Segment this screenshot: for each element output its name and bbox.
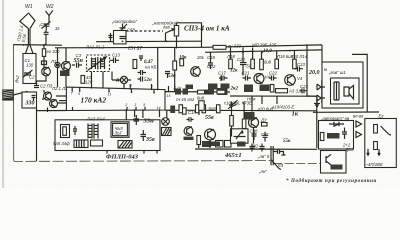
blob K31E: [237, 142, 246, 147]
module pins top: [130, 84, 168, 92]
capacitor C1B: [141, 130, 147, 141]
capacitor C6: [120, 37, 126, 39]
capacitor C13: [110, 58, 119, 64]
jack symbols: [356, 121, 362, 138]
transistor V5pre: [184, 127, 193, 136]
scan streak: [2, 0, 4, 188]
capacitor C1 trimmer: [42, 22, 51, 31]
wire V2 emitter to C2: [37, 76, 47, 84]
mixer A1: [120, 76, 127, 83]
rail H8: [37, 110, 67, 112]
resistor R1: [42, 49, 45, 57]
capacitor C17: [219, 76, 228, 81]
blob 3ch3: [208, 84, 218, 90]
bottomright right box: [365, 119, 397, 168]
resistor near A2: [183, 108, 187, 114]
capacitor C22: [269, 76, 277, 81]
junction dots rails: [23, 41, 308, 112]
resistor R16: [260, 59, 264, 69]
blob small box: [331, 165, 343, 170]
transistor V7: [249, 118, 259, 128]
filter lined box: [74, 140, 88, 148]
filter transformer: [88, 124, 98, 139]
pot wiper arrow: [166, 29, 175, 33]
capacitor C12 vert: [165, 72, 170, 79]
rail H3: [96, 40, 202, 43]
tuning slug arrow: [88, 57, 107, 71]
ferrite rod box: [3, 90, 13, 100]
wire wiper down: [165, 33, 167, 41]
AF bottom row blob: [202, 141, 211, 147]
paper texture: [0, 0, 1, 1]
resistor R5 leads: [174, 48, 176, 92]
bottomright left box: [319, 121, 354, 150]
hatched box A2: [162, 128, 172, 136]
coupling trimmer: [228, 100, 238, 109]
resistor horiz b1: [198, 90, 205, 94]
resistor AF v1: [230, 116, 234, 127]
AF small box: [199, 101, 205, 111]
blobs above module right: [175, 89, 181, 95]
rail H1: [13, 44, 62, 47]
cap to ground right: [273, 149, 285, 155]
resistor R14: [293, 59, 297, 68]
pin digits: [71, 84, 171, 110]
resistor br1: [320, 133, 324, 141]
oscillator box: [114, 31, 127, 44]
wire x36.5: [36, 108, 38, 161]
blob R13: [244, 85, 253, 93]
cap C29: [250, 144, 255, 152]
pot SP3-4 leads: [176, 23, 178, 48]
resistor R6 horizontal: [213, 45, 226, 49]
pot box: [231, 129, 249, 143]
small box transistor: [326, 155, 331, 166]
diode small box: [42, 60, 47, 66]
capacitor C2a bottom: [34, 84, 39, 88]
gang link dashes: [126, 30, 163, 32]
blob3: [205, 90, 214, 95]
capacitor C27a: [300, 88, 308, 93]
wire x317: [316, 96, 318, 148]
module internal top pins: [72, 87, 154, 92]
wire out right: [352, 54, 367, 112]
AF bottom row box2: [225, 141, 232, 148]
trimmer in coil box: [23, 70, 33, 78]
transistor V5: [285, 75, 296, 86]
bottom boundary line right: [273, 162, 320, 164]
transistor V4: [254, 74, 264, 84]
antenna W1 stem wires: [26, 29, 34, 54]
IF transformer dashed box: [87, 55, 110, 72]
filter cap: [73, 126, 77, 135]
resistor row v1: [179, 105, 183, 113]
filter inner resistor box: [61, 125, 70, 138]
transformer bars: [334, 82, 339, 100]
output box outer: [322, 62, 363, 108]
rail H2: [55, 45, 322, 48]
resistor R1 leads: [43, 45, 45, 60]
resistor row v3: [202, 105, 206, 113]
wire node column: [58, 48, 67, 87]
filter cluster resistor: [133, 60, 137, 69]
blob 4H7: [221, 84, 230, 89]
osc transistor Q2: [50, 100, 58, 108]
resistor rr2: [374, 142, 378, 150]
blob 10H15V: [327, 133, 340, 139]
misc short wires top: [211, 48, 295, 82]
left AF resistor: [197, 136, 201, 145]
capacitor 1H: [134, 115, 140, 125]
capacitor C18: [208, 60, 213, 70]
wire diode to V2: [44, 65, 46, 68]
resistor AF v2: [242, 119, 246, 129]
capacitor C21: [243, 76, 252, 81]
wire pot top corner: [177, 23, 202, 48]
wire mid vertical: [157, 48, 159, 90]
resistor R17 vertical: [270, 85, 274, 93]
wire x307: [306, 45, 308, 96]
wire output bus: [321, 80, 323, 103]
wire A1 left: [112, 72, 120, 81]
module pin dots top: [129, 88, 152, 90]
blob 10H10B: [244, 112, 255, 120]
capacitor C2: [44, 30, 49, 45]
rail H9: [195, 148, 317, 150]
capacitor C10: [138, 70, 147, 75]
rail H4: [205, 50, 322, 52]
filter resistor: [63, 127, 67, 136]
node circle nb: [55, 62, 60, 67]
wires top right of AF: [252, 96, 277, 111]
box 465: [111, 122, 129, 138]
antenna W2 symbol: [46, 11, 53, 23]
rail H7a: [165, 91, 230, 93]
transistor V2: [42, 67, 51, 76]
cap br: [342, 128, 347, 140]
vertical pair junction: [271, 146, 273, 165]
resistor rr1: [374, 125, 378, 134]
capacitor near A2: [187, 117, 194, 121]
rail H8b: [165, 109, 317, 112]
wire V1 emitter: [65, 76, 67, 87]
blob 35K rotated: [170, 106, 175, 114]
IF transformer coils: [92, 57, 105, 70]
ground symbol: [314, 99, 320, 107]
module internal bottom pins: [73, 107, 146, 111]
misc wires AF: [199, 101, 254, 148]
cap C28: [252, 131, 257, 141]
resistor row v2: [196, 105, 200, 113]
diode D1: [329, 122, 344, 126]
wire to box left pin: [59, 100, 66, 102]
left border vertical: [13, 45, 15, 160]
resistor A3 horizontal: [276, 89, 288, 93]
blob A03: [260, 85, 270, 92]
resistor R5: [173, 61, 177, 70]
module internal pin dots: [71, 90, 154, 94]
module pins bottom: [126, 110, 159, 121]
trimmer cap C5 left: [118, 24, 127, 42]
capacitor C11 + label 52n: [138, 77, 143, 82]
pot symbol: [234, 131, 246, 140]
blob V1 type: [60, 71, 70, 77]
blob4: [218, 88, 228, 95]
wire v317 up: [307, 95, 317, 97]
resistor R15: [251, 59, 255, 68]
osc transistor Q1: [44, 92, 52, 100]
pin dots bottom: [125, 109, 160, 111]
resistor DU: [262, 123, 268, 127]
pot SP3-4 body: [174, 26, 178, 37]
transistor V6: [205, 129, 216, 140]
speaker: [344, 86, 354, 100]
capacitor C23: [295, 67, 304, 72]
cap in 330 box: [32, 96, 36, 102]
blob V2k: [186, 85, 194, 90]
resistor R4: [180, 59, 184, 66]
osc wires: [42, 90, 66, 112]
transistor V3: [191, 67, 201, 77]
AF bottom row box1: [216, 141, 224, 148]
output box inner: [331, 78, 360, 104]
cap C30: [260, 144, 265, 152]
capacitor C20: [240, 63, 247, 69]
filter small box2: [91, 140, 103, 146]
wire box left riser: [321, 45, 323, 62]
coil box L1: [23, 54, 36, 84]
bottom right top line: [313, 111, 379, 113]
filter big box: [55, 120, 160, 151]
wire coil drops: [92, 72, 132, 89]
wire A2: [166, 110, 168, 117]
antenna W1 loop: [20, 13, 35, 29]
bottom boundary line left: [14, 159, 270, 161]
switch bottom: [271, 160, 281, 170]
wire ferrite to box: [13, 92, 27, 96]
filter box bottom stubs: [107, 151, 157, 154]
pot arrows: [367, 149, 380, 155]
mixer A2: [162, 118, 170, 126]
switch right: [381, 126, 392, 135]
bottom small box: [321, 151, 347, 174]
resistor horiz b2: [217, 90, 225, 94]
box 330: [22, 92, 37, 108]
resistor R16b: [275, 59, 279, 68]
rail H7b: [230, 95, 317, 97]
resistor R3: [81, 76, 85, 84]
blob KT315: [208, 142, 220, 147]
filter cap: [139, 56, 143, 61]
output transistors: [317, 84, 325, 101]
small cap left of trimmer: [109, 33, 113, 41]
blob under V5pre: [184, 137, 194, 140]
blob2: [183, 89, 189, 95]
module box: [66, 87, 165, 110]
cap C31: [263, 132, 268, 142]
hatched crystal: [118, 141, 132, 149]
transistor V1: [62, 62, 71, 74]
resistor R18: [229, 59, 233, 68]
resistor row v4: [217, 105, 221, 113]
capacitor C3: [72, 63, 82, 68]
